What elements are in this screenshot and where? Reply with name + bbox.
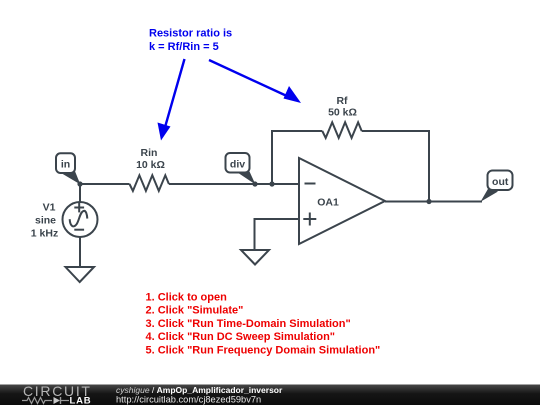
- junction dot at node in: [77, 181, 82, 186]
- V1 minus mark: [74, 229, 84, 231]
- svg-text:Rf: Rf: [336, 95, 348, 107]
- wire: node in to resistor Rin: [80, 183, 130, 185]
- op-amp OA1 inverting pin mark: [305, 183, 316, 185]
- svg-text:cyshigue / AmpOp_Amplificador_: cyshigue / AmpOp_Amplificador_inversor: [116, 385, 283, 395]
- V1 sine mark: [70, 211, 88, 227]
- node label div (callout): [226, 153, 256, 184]
- svg-text:div: div: [230, 159, 245, 171]
- svg-text:5. Click "Run Frequency Domain: 5. Click "Run Frequency Domain Simulatio…: [146, 345, 381, 357]
- svg-text:http://circuitlab.com/cj8ezed5: http://circuitlab.com/cj8ezed59bv7n: [116, 395, 261, 405]
- wire: non-inverting input to ground branch: [255, 219, 300, 250]
- logo resistor squiggle: [22, 398, 52, 404]
- svg-text:3. Click "Run Time-Domain Simu: 3. Click "Run Time-Domain Simulation": [146, 318, 351, 330]
- junction dot at feedback tap: [269, 181, 274, 186]
- svg-text:Resistor ratio is: Resistor ratio is: [149, 28, 232, 40]
- wire: feedback top right segment: [362, 130, 430, 132]
- resistor Rin: [130, 175, 169, 191]
- junction dot at output/feedback: [426, 199, 431, 204]
- wire: feedback right leg down to output: [428, 130, 430, 202]
- voltage source V1 body: [63, 202, 98, 237]
- wire: V1 to ground: [79, 236, 81, 267]
- V1 plus mark: [74, 203, 84, 213]
- op-amp OA1 body: [299, 158, 385, 244]
- wire: op-amp output to node out: [385, 201, 482, 203]
- svg-text:2. Click "Simulate": 2. Click "Simulate": [146, 305, 244, 317]
- annotation text: Resistor ratio is / k = Rf/Rin = 5: [149, 28, 232, 54]
- svg-text:k = Rf/Rin = 5: k = Rf/Rin = 5: [149, 41, 219, 53]
- svg-text:LAB: LAB: [70, 396, 92, 405]
- svg-text:Rin: Rin: [141, 147, 158, 159]
- footer bar: [0, 385, 540, 405]
- svg-text:OA1: OA1: [317, 196, 339, 208]
- wire: feedback top left segment: [271, 130, 322, 132]
- junction dot at div callout: [252, 181, 257, 186]
- node label in (callout): [56, 153, 80, 184]
- svg-text:50 kΩ: 50 kΩ: [328, 107, 357, 119]
- svg-text:in: in: [61, 158, 70, 170]
- wire: resistor Rin to op-amp inverting input: [169, 183, 299, 185]
- annotation arrow to Rin: [158, 59, 185, 141]
- svg-text:sine: sine: [35, 215, 56, 227]
- svg-text:V1: V1: [43, 202, 56, 214]
- op-amp OA1 non-inverting pin mark: [303, 213, 316, 226]
- wire: node in down to V1: [79, 184, 81, 203]
- svg-text:1 kHz: 1 kHz: [31, 228, 58, 240]
- ground symbol G2 (op-amp non-inverting input): [241, 250, 269, 265]
- instruction text (red): [146, 292, 381, 357]
- svg-text:4. Click "Run DC Sweep Simulat: 4. Click "Run DC Sweep Simulation": [146, 331, 336, 343]
- svg-text:1. Click to open: 1. Click to open: [146, 292, 228, 304]
- node label out (callout): [481, 171, 513, 202]
- annotation arrow to Rf: [209, 60, 301, 103]
- svg-text:10 kΩ: 10 kΩ: [136, 159, 165, 171]
- svg-text:out: out: [492, 176, 509, 188]
- wire: feedback left leg (junction up): [271, 131, 273, 184]
- resistor Rf: [322, 122, 361, 138]
- ground symbol G1 (below V1): [66, 267, 95, 282]
- logo diode: [54, 397, 70, 404]
